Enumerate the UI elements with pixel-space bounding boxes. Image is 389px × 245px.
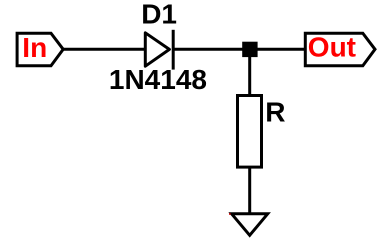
- diode D1 (triangle): [145, 33, 169, 66]
- port Out: [305, 33, 375, 66]
- wire from resistor to ground: [248, 167, 251, 213]
- wire from junction down to resistor: [248, 49, 251, 95]
- diode D1 cathode bar: [172, 30, 175, 70]
- svg-text:R: R: [265, 96, 285, 127]
- ground pin dot (red): [229, 213, 231, 215]
- resistor R (body): [238, 96, 262, 168]
- wire from diode cathode to junction: [173, 48, 250, 51]
- svg-text:D1: D1: [141, 0, 177, 30]
- svg-text:In: In: [22, 32, 47, 63]
- junction node (solder dot): [242, 42, 257, 57]
- port In: [17, 33, 63, 66]
- svg-text:Out: Out: [308, 31, 356, 62]
- wire from junction to Out port: [250, 48, 307, 51]
- wire from In port to diode anode: [62, 48, 146, 51]
- svg-text:1N4148: 1N4148: [109, 64, 207, 95]
- ground: [232, 214, 268, 236]
